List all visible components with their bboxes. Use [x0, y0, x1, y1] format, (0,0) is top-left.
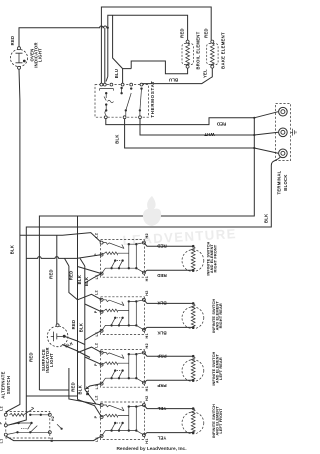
S1 terminal P: [100, 253, 103, 256]
S2 junction dots top: [128, 300, 130, 302]
wire S2 L1 gap link: [85, 331, 102, 340]
S3 bottom rail: [102, 378, 144, 383]
wire oven drop: [104, 28, 106, 83]
wire E4 top: [144, 405, 193, 409]
S1 bottom rail: [102, 268, 144, 273]
S4 terminal H1: [142, 434, 145, 437]
svg-text:LIGHT: LIGHT: [49, 353, 54, 367]
S2 bottom rail: [102, 325, 144, 330]
S4 terminal P: [100, 416, 103, 419]
svg-text:RED: RED: [203, 28, 208, 38]
svg-text:BLK: BLK: [78, 385, 83, 395]
svg-text:L2: L2: [94, 233, 98, 238]
svg-text:L2: L2: [94, 395, 98, 400]
wire E1 top: [144, 243, 193, 247]
S4 internal resistor: [105, 414, 118, 417]
svg-text:SWITCH: SWITCH: [6, 376, 11, 394]
wire E1 bottom: [144, 270, 193, 272]
S4 terminal L2: [100, 404, 103, 407]
wire bus right-outer: [7, 157, 280, 425]
bake element terminals: [211, 40, 214, 43]
wire alt L1 to S4 L1: [6, 436, 102, 441]
svg-text:Rendered by LeadVenture, Inc.: Rendered by LeadVenture, Inc.: [116, 446, 186, 452]
S4 internal wires right: [118, 405, 144, 431]
S1 pilot contact: [103, 243, 124, 249]
thermostat box: [95, 85, 149, 118]
S2 terminal H2: [142, 298, 145, 301]
wire rail branch to BLU: [113, 15, 123, 68]
S4 terminal L1: [100, 435, 103, 438]
svg-text:RED: RED: [70, 382, 75, 392]
svg-text:BAKE ELEMENT: BAKE ELEMENT: [221, 32, 226, 69]
svg-text:L2: L2: [94, 290, 98, 295]
svg-text:RED: RED: [180, 28, 185, 38]
svg-text:PRP: PRP: [157, 383, 166, 388]
svg-text:BLU: BLU: [114, 69, 119, 79]
surface element E1: [182, 250, 204, 272]
svg-text:THERMOSTAT: THERMOSTAT: [150, 80, 155, 117]
wire BLU stub: [123, 69, 132, 84]
oven indicator light: [10, 49, 27, 66]
infinite switch S2 box: [101, 297, 145, 335]
wire S1 L1 gap link: [85, 274, 102, 283]
wire bottom feed 2: [26, 395, 77, 397]
S2 junction dots bottom: [110, 324, 112, 326]
S1 internal resistor: [105, 252, 118, 255]
svg-text:H1: H1: [145, 438, 149, 443]
svg-text:YEL: YEL: [157, 406, 166, 411]
svg-text:BROIL ELEMENT: BROIL ELEMENT: [196, 31, 201, 69]
wire E2 top: [144, 300, 193, 304]
svg-text:H2: H2: [145, 395, 149, 400]
svg-text:H2: H2: [51, 416, 55, 421]
wire WHT to terminal block: [140, 119, 278, 135]
wire E3 bottom: [144, 380, 193, 382]
svg-text:H1: H1: [145, 276, 149, 281]
svg-text:RED: RED: [29, 352, 34, 362]
wire E2 bottom: [144, 327, 193, 329]
S2 terminal P: [100, 310, 103, 313]
wire S2 P feed: [85, 304, 102, 312]
svg-text:RIGHT REAR: RIGHT REAR: [218, 303, 223, 328]
wire E3 top: [144, 353, 193, 357]
junction: [253, 117, 255, 119]
S1 terminal H2: [142, 241, 145, 244]
junction: [253, 147, 255, 149]
svg-text:RED: RED: [216, 122, 226, 127]
wire gap bus A2: [69, 368, 102, 405]
alt switch mid contacts: [17, 422, 19, 424]
terminal block nut 2: [279, 128, 288, 137]
S2 terminal L2: [100, 298, 103, 301]
wire S2 L2 tent: [78, 294, 102, 300]
thermostat bottom terminals: [104, 116, 107, 119]
S2 internal resistor: [105, 309, 118, 312]
thermostat internal col4: [140, 87, 142, 89]
svg-text:H2: H2: [145, 290, 149, 295]
svg-text:PRP: PRP: [157, 354, 166, 359]
infinite switch S1 box: [101, 240, 145, 278]
wire RED to terminal block: [106, 112, 278, 125]
S1 internal wires right: [118, 243, 144, 269]
terminal block nut 3: [279, 149, 288, 158]
bake element body: [207, 44, 218, 65]
wire S1 P feed: [26, 255, 101, 259]
svg-text:BLK: BLK: [157, 330, 167, 335]
S1 terminal L2: [100, 241, 103, 244]
wire gap bus B: [77, 216, 79, 400]
surface indicator light: [47, 326, 68, 347]
S3 terminal H2: [142, 351, 145, 354]
wire S3 L1 gap link: [85, 384, 102, 404]
broil element body: [182, 44, 193, 65]
S2 terminal L1: [100, 329, 103, 332]
wire YEL thermostat-bake: [143, 68, 213, 84]
svg-text:L2: L2: [94, 343, 98, 348]
thermostat top terminals: [100, 83, 103, 86]
wire light to S3: [62, 336, 90, 357]
wire BLK left bus: [6, 69, 20, 413]
S3 terminal L1: [100, 382, 103, 385]
svg-text:YEL: YEL: [157, 436, 166, 441]
svg-text:BLK: BLK: [77, 275, 82, 285]
svg-text:RED: RED: [71, 320, 76, 330]
svg-text:RED: RED: [10, 36, 15, 46]
svg-text:WHT: WHT: [204, 132, 214, 137]
S4 junction dots bottom: [110, 429, 112, 431]
svg-text:BLOCK: BLOCK: [283, 174, 288, 190]
S3 terminal H1: [142, 381, 145, 384]
wire L2 feed line: [20, 233, 102, 243]
infinite switch S3 box: [101, 350, 145, 388]
svg-text:H1: H1: [145, 386, 149, 391]
S3 cam contacts: [114, 369, 116, 371]
wire bus right-mid: [39, 118, 254, 390]
alt switch terminal H1: [48, 431, 51, 434]
wire top rail outer: [101, 7, 211, 83]
svg-text:H1: H1: [50, 437, 54, 442]
S3 junction dots top: [128, 353, 130, 355]
svg-text:H2: H2: [145, 343, 149, 348]
S1 terminal L1: [100, 272, 103, 275]
svg-text:P: P: [94, 415, 98, 418]
watermark flame: [143, 196, 161, 226]
svg-text:RED: RED: [48, 269, 53, 279]
wire S3 L2 tent: [78, 347, 102, 353]
wire oven-indicator to thermostat (RED): [19, 26, 108, 48]
wire top rail inner: [106, 15, 188, 81]
alt switch terminal P: [4, 424, 7, 427]
svg-text:RIGHT FRONT: RIGHT FRONT: [212, 244, 217, 272]
svg-text:BLK: BLK: [79, 323, 84, 333]
thermostat internal col1: [105, 92, 107, 94]
svg-text:BLK: BLK: [157, 301, 167, 306]
S1 junction dots bottom: [110, 267, 112, 269]
S4 bottom rail: [102, 431, 144, 436]
svg-text:P: P: [94, 363, 98, 366]
wire gap bus C: [80, 258, 85, 389]
wire S3 P feed: [85, 357, 102, 365]
S3 internal wires right: [118, 353, 144, 379]
S4 pilot contact: [103, 405, 124, 411]
terminal block box: [276, 104, 291, 161]
S3 internal resistor: [105, 362, 118, 365]
svg-text:BLK: BLK: [85, 386, 90, 396]
svg-text:LEFT REAR: LEFT REAR: [218, 357, 223, 380]
svg-text:LIGHT: LIGHT: [38, 48, 43, 62]
svg-text:BLK: BLK: [263, 214, 268, 224]
alt switch terminal H2: [48, 413, 51, 416]
svg-text:RED: RED: [157, 273, 167, 278]
alt switch external blade: [57, 424, 62, 429]
alt switch terminal L2: [4, 413, 7, 416]
svg-text:H1: H1: [145, 333, 149, 338]
wire BLK mid to terminal block: [125, 119, 279, 154]
svg-text:BLU: BLU: [169, 77, 178, 82]
svg-text:L2: L2: [0, 406, 4, 411]
ground symbol: [291, 129, 296, 136]
svg-text:BLK: BLK: [10, 245, 15, 255]
thermostat internal col3: [130, 87, 132, 89]
S3 terminal P: [100, 363, 103, 366]
svg-text:P: P: [0, 421, 3, 424]
junction: [253, 134, 255, 136]
infinite switch S4 box: [101, 402, 145, 440]
surface element E4: [182, 412, 204, 434]
S2 internal wires right: [118, 300, 144, 326]
alt switch bottom row: [16, 431, 18, 433]
alt switch terminal L1: [4, 433, 7, 436]
S4 cam contacts: [114, 422, 116, 424]
thermostat internal bracket: [100, 89, 114, 91]
svg-text:L1: L1: [0, 439, 4, 444]
wire S1 L1 feed: [78, 267, 102, 274]
S1 cam contacts: [114, 259, 116, 261]
svg-text:LEFT FRONT: LEFT FRONT: [218, 408, 223, 434]
wire gap bus A: [65, 258, 78, 299]
alternate switch box: [6, 412, 50, 439]
svg-text:BLK: BLK: [114, 134, 119, 144]
S3 junction dots bottom: [110, 377, 112, 379]
alt switch resistor: [10, 413, 24, 416]
svg-text:ALTERNATE: ALTERNATE: [1, 371, 6, 398]
alt switch dots top: [29, 414, 31, 416]
alt switch blade top: [24, 407, 34, 415]
S4 junction dots top: [128, 405, 130, 407]
wire bus surface: [56, 235, 58, 324]
svg-text:RED: RED: [69, 270, 74, 280]
wire BLU thermostat-broil: [131, 61, 187, 74]
S2 pilot contact: [103, 300, 124, 306]
wire S4 P feed: [78, 400, 102, 418]
S1 terminal H1: [142, 271, 145, 274]
S2 terminal H1: [142, 328, 145, 331]
svg-text:TERMINAL: TERMINAL: [276, 170, 281, 194]
surface element E3: [182, 360, 204, 382]
svg-text:BLK: BLK: [84, 277, 89, 287]
svg-text:RED: RED: [157, 244, 167, 249]
broil element terminals: [186, 40, 189, 43]
terminal block nut 1: [279, 107, 288, 116]
svg-text:P: P: [94, 310, 98, 313]
surface element E2: [182, 307, 204, 329]
S3 pilot contact: [103, 353, 124, 359]
S3 terminal L2: [100, 351, 103, 354]
S1 junction dots top: [128, 243, 130, 245]
S4 terminal H2: [142, 404, 145, 407]
svg-text:YEL: YEL: [202, 69, 207, 78]
wire bottom feed 1: [39, 389, 69, 391]
thermostat internal col2: [120, 87, 122, 89]
S2 cam contacts: [114, 317, 116, 319]
svg-text:H2: H2: [145, 233, 149, 238]
wire E4 bottom: [144, 433, 193, 435]
